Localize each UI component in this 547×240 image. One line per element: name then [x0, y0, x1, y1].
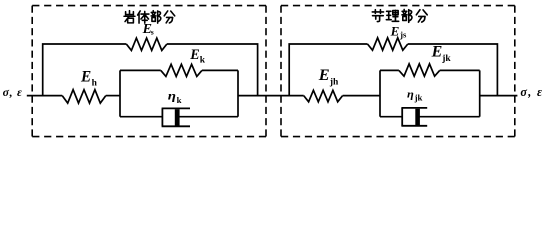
- svg-text:jk: jk: [441, 54, 451, 64]
- svg-text:jh: jh: [329, 77, 339, 87]
- svg-text:E: E: [431, 43, 443, 60]
- svg-text:E: E: [318, 65, 330, 84]
- svg-text:E: E: [80, 69, 91, 86]
- svg-text:σ, ε: σ, ε: [520, 85, 543, 99]
- svg-text:k: k: [177, 95, 182, 105]
- svg-text:σ, ε: σ, ε: [3, 85, 23, 99]
- svg-text:η: η: [168, 90, 176, 102]
- svg-text:jk: jk: [414, 92, 423, 102]
- svg-text:η: η: [407, 89, 414, 101]
- svg-text:h: h: [92, 78, 98, 88]
- svg-text:E: E: [189, 47, 199, 63]
- svg-text:s: s: [151, 28, 154, 37]
- svg-text:js: js: [399, 30, 407, 40]
- svg-text:E: E: [390, 23, 400, 38]
- svg-text:k: k: [200, 56, 206, 66]
